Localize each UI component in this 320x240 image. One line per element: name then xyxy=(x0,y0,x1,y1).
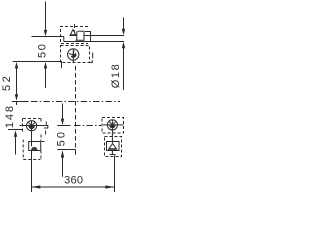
dimension 50 mid: upper arrow xyxy=(61,119,64,126)
dimension D18: lower arrow xyxy=(122,42,125,49)
fastener top: bracket rect xyxy=(76,31,85,40)
fastener right: screw anchor lower half xyxy=(109,125,115,128)
dimension 360: right extension xyxy=(114,156,116,193)
wire member bottom edge with corner xyxy=(13,62,62,69)
fastener right: axis line through circle xyxy=(103,124,124,126)
fastener right: claw box xyxy=(107,142,120,151)
fastener right: claw triangle xyxy=(109,144,117,149)
fastener top: screw anchor group xyxy=(69,50,78,59)
fastener left: dashed box left edge lower xyxy=(22,140,24,160)
fastener top: claw triangle xyxy=(70,30,75,35)
hidden edge stub below xyxy=(75,150,77,155)
dimension 360: right arrow xyxy=(105,185,114,188)
fastener top: bracket left edge xyxy=(76,31,78,40)
dimension 360: left arrow xyxy=(31,185,40,188)
dimension 50 mid: lower arrow xyxy=(61,150,64,158)
dimension 50 mid: upper shaft xyxy=(62,104,64,120)
fastener left: screw circle xyxy=(27,121,37,131)
fastener right: screw circle xyxy=(107,120,117,130)
fastener right: lower stub xyxy=(111,151,113,155)
screw axis centerline dashdot xyxy=(74,125,101,127)
wire tube top edge right segment xyxy=(84,35,125,37)
dimension 50 top: lower shaft xyxy=(45,68,47,89)
fastener left: screw anchor lower half xyxy=(28,126,34,129)
fastener right: vertical axis xyxy=(111,120,113,144)
fastener left: claw box xyxy=(29,142,41,151)
fastener top: box corner extension xyxy=(90,60,93,63)
wire tube top edge left segment xyxy=(32,36,64,38)
wire tube bottom edge xyxy=(64,41,124,43)
hidden edge vertical dashed xyxy=(75,66,77,150)
fastener left: box step horizontal xyxy=(44,127,48,129)
fastener left: dashed box left edge upper xyxy=(22,119,24,132)
fastener top: lower dashed box xyxy=(61,46,90,63)
fastener right: claw base xyxy=(108,148,117,150)
fastener left: vertical axis upper xyxy=(31,121,33,147)
fastener top: screw axis vertical xyxy=(72,49,74,63)
svg-text:50: 50 xyxy=(37,43,49,58)
fastener left: claw dash right xyxy=(42,141,45,143)
fastener left: dashed box top edge xyxy=(23,118,41,120)
dimension 50 top: upper shaft xyxy=(45,2,47,31)
dimension 148: lower shaft xyxy=(15,136,17,154)
dimension 52: upper arrow xyxy=(15,62,18,69)
dimension 50 mid: top extent line xyxy=(57,125,70,127)
fastener right: lower dash xyxy=(110,154,116,156)
dimension 148: extent line xyxy=(8,129,23,131)
svg-text:Ø18: Ø18 xyxy=(110,63,122,89)
fastener top: profile tick right xyxy=(92,53,94,59)
dimension 50 mid: bottom extent line xyxy=(57,149,75,151)
fastener top: profile end bracket xyxy=(85,32,91,42)
wire tube edge step xyxy=(63,37,65,42)
fastener right: screw anchor arm right xyxy=(112,122,115,125)
fastener left: dashed box bottom edge xyxy=(23,159,40,161)
fastener left: dashed box right edge upper xyxy=(40,119,42,124)
fastener right: dashed box upper xyxy=(102,118,124,134)
centerline main horizontal dashdot part xyxy=(31,101,120,103)
dimension 148: stub below centerline xyxy=(16,102,18,106)
dimension 52: shaft xyxy=(16,68,18,95)
fastener left: axis line through circle xyxy=(20,125,49,127)
dimension D18: lower shaft xyxy=(123,48,125,91)
fastener right: dashed box lower xyxy=(105,137,122,157)
dimension 360: left extension xyxy=(31,151,33,193)
fastener top: screw circle xyxy=(68,49,79,60)
fastener top: claw base line xyxy=(70,35,77,37)
dimension D18: upper shaft xyxy=(123,18,125,30)
fastener left: box step vertical upper xyxy=(47,125,49,128)
dimension 148: lower arrow xyxy=(14,130,17,137)
fastener top: axis dashdot xyxy=(74,24,76,32)
svg-text:52: 52 xyxy=(1,74,13,91)
dimension 50 top: upper arrow xyxy=(44,30,47,37)
dimension 360: line xyxy=(32,186,115,188)
fastener left: dashed box right edge lower xyxy=(40,151,42,160)
fastener top: upper dashed box xyxy=(61,27,89,44)
dimension 50 top: lower arrow xyxy=(44,62,47,69)
fastener left: screw anchor arm left xyxy=(28,122,31,125)
dimension 50 mid: lower shaft xyxy=(62,157,64,177)
centerline main horizontal solid part xyxy=(12,101,29,103)
dimension D18: upper arrow xyxy=(122,29,125,36)
fastener left: screw anchor arm right xyxy=(32,123,35,126)
fastener left: dashed box right edge mid xyxy=(40,135,42,142)
svg-text:148: 148 xyxy=(4,104,16,128)
fastener left: claw dome xyxy=(31,147,37,150)
svg-text:50: 50 xyxy=(55,130,67,147)
fastener left: box step vertical lower xyxy=(45,131,47,135)
svg-text:360: 360 xyxy=(64,174,83,186)
fastener right: screw anchor arm left xyxy=(109,122,112,125)
fastener left: vertical axis lower to dimension xyxy=(31,151,33,193)
dimension 52: lower arrow xyxy=(15,94,18,101)
